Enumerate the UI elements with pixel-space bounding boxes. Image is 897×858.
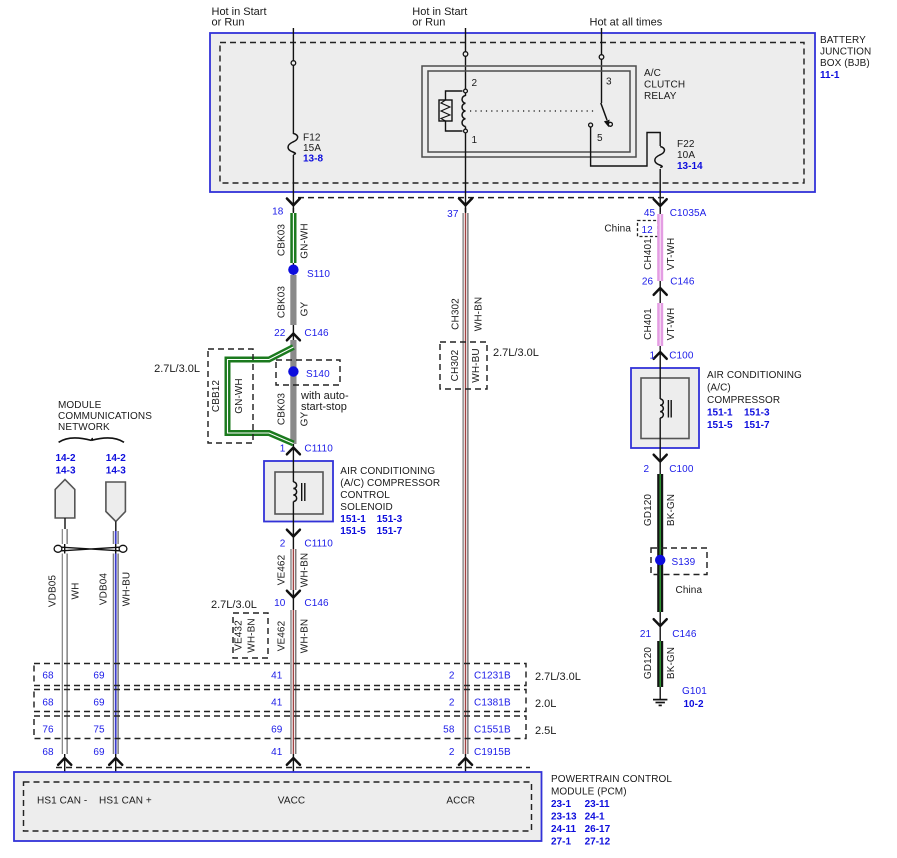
splice S139 (China) — [651, 548, 707, 596]
svg-text:AIR CONDITIONING: AIR CONDITIONING — [340, 466, 435, 477]
svg-text:69: 69 — [271, 725, 283, 736]
svg-text:2: 2 — [449, 671, 455, 682]
wire VDB05 WH — [48, 529, 82, 782]
A/C clutch relay K (box) — [422, 66, 685, 157]
svg-text:ACCR: ACCR — [446, 796, 475, 807]
svg-text:151-3: 151-3 — [744, 408, 770, 419]
node: Hot at all times — [590, 17, 663, 29]
wire VE462 WH-BN segment to C146 — [276, 536, 310, 598]
wire VE462 WH-BN segment to PCM — [276, 598, 310, 782]
svg-text:POWERTRAIN CONTROL: POWERTRAIN CONTROL — [551, 774, 672, 785]
relay switch arm pin 3 to contact — [589, 103, 613, 127]
connector exit pin 18 (C1035B) — [272, 199, 300, 218]
brace — [59, 438, 124, 442]
svg-text:10-2: 10-2 — [684, 699, 704, 710]
svg-text:22: 22 — [274, 328, 286, 339]
svg-text:MODULE (PCM): MODULE (PCM) — [551, 787, 627, 798]
relay pin 2 label — [472, 78, 478, 89]
svg-text:C146: C146 — [672, 629, 697, 640]
svg-text:151-1: 151-1 — [707, 408, 733, 419]
svg-text:75: 75 — [93, 725, 105, 736]
wire: F22 to BJB exit — [659, 169, 661, 212]
wire: feed 2 into BJB to relay coil pin 2 — [463, 28, 468, 91]
svg-text:WH-BU: WH-BU — [471, 348, 482, 382]
connector exit pin 37 — [447, 199, 472, 221]
off-page connector (down) HS1 CAN + — [106, 482, 126, 522]
relay pin 5 label — [597, 133, 603, 144]
svg-text:COMMUNICATIONS: COMMUNICATIONS — [58, 411, 152, 422]
svg-text:21: 21 — [640, 629, 652, 640]
relay coil between pins 2 and 1 — [462, 89, 467, 133]
module communications network heading — [58, 400, 152, 433]
connector C146 pin 26 — [642, 277, 695, 295]
svg-text:18: 18 — [272, 207, 284, 218]
fuse F22 10A 13-14 — [655, 139, 703, 172]
svg-text:WH: WH — [71, 583, 82, 600]
svg-text:68: 68 — [42, 747, 54, 758]
svg-text:SOLENOID: SOLENOID — [340, 502, 392, 513]
relay pin 3 label — [606, 77, 612, 88]
svg-text:2.7L/3.0L: 2.7L/3.0L — [493, 347, 539, 359]
svg-text:27-12: 27-12 — [585, 837, 611, 848]
svg-text:C146: C146 — [304, 598, 329, 609]
svg-text:23-13: 23-13 — [551, 812, 577, 823]
svg-text:F22: F22 — [677, 139, 695, 150]
engine variant label 2.7L/3.0L (wire 2) — [493, 347, 539, 359]
svg-text:15A: 15A — [303, 143, 321, 154]
svg-text:(A/C): (A/C) — [707, 383, 731, 394]
svg-text:start-stop: start-stop — [301, 401, 347, 413]
connector C146 pin 21 — [640, 619, 697, 640]
svg-text:CBK03: CBK03 — [276, 224, 287, 257]
relay pin 1 label — [472, 135, 478, 146]
svg-text:11-1: 11-1 — [820, 70, 840, 81]
svg-text:CONTROL: CONTROL — [340, 490, 390, 501]
svg-text:or Run: or Run — [212, 17, 245, 29]
svg-text:VT-WH: VT-WH — [666, 308, 677, 341]
air conditioning (A/C) compressor (box) — [631, 352, 802, 461]
svg-text:68: 68 — [42, 698, 54, 709]
svg-text:AIR CONDITIONING: AIR CONDITIONING — [707, 370, 802, 381]
svg-text:VE432: VE432 — [234, 620, 245, 651]
svg-text:1: 1 — [650, 351, 656, 362]
wire CBK03 GN-WH segment — [276, 208, 310, 275]
connector C146 pin 22 — [274, 328, 329, 340]
wire: relay pin 5 to fuse F22 — [591, 127, 661, 166]
svg-text:151-1: 151-1 — [340, 514, 366, 525]
svg-text:37: 37 — [447, 209, 459, 220]
note: with auto-start-stop — [300, 390, 349, 413]
svg-text:24-11: 24-11 — [551, 824, 576, 835]
connector dashed box: 12 (China) — [604, 221, 658, 237]
svg-text:68: 68 — [42, 671, 54, 682]
svg-text:S140: S140 — [306, 369, 330, 380]
svg-text:151-3: 151-3 — [377, 514, 403, 525]
node: Hot in Start or Run (feed 2) — [412, 6, 467, 29]
svg-text:CBB12: CBB12 — [211, 380, 222, 413]
svg-text:CBK03: CBK03 — [276, 393, 287, 426]
svg-text:or Run: or Run — [412, 17, 445, 29]
svg-text:10: 10 — [274, 598, 286, 609]
page refs 14-2 14-3 (left) — [55, 453, 75, 477]
svg-text:69: 69 — [93, 698, 105, 709]
wire: F12 to BJB exit — [292, 155, 294, 212]
svg-text:151-5: 151-5 — [340, 526, 366, 537]
svg-text:C146: C146 — [670, 277, 695, 288]
svg-text:2.7L/3.0L: 2.7L/3.0L — [535, 671, 581, 683]
svg-text:CH401: CH401 — [643, 308, 654, 340]
svg-text:151-7: 151-7 — [744, 420, 770, 431]
svg-text:2: 2 — [280, 539, 286, 550]
dashed option box VE432 WH-BN — [233, 613, 268, 658]
svg-text:23-1: 23-1 — [551, 799, 571, 810]
svg-text:69: 69 — [93, 671, 105, 682]
svg-text:HS1 CAN +: HS1 CAN + — [99, 796, 152, 807]
svg-text:14-2: 14-2 — [55, 453, 75, 464]
svg-text:2.0L: 2.0L — [535, 698, 556, 710]
node: Hot in Start or Run (feed 1) — [212, 6, 267, 29]
connector row C1381B (2.0L) — [34, 690, 556, 712]
splice S110 — [288, 265, 330, 281]
svg-text:2.7L/3.0L: 2.7L/3.0L — [211, 599, 257, 611]
branch wire CBB12 GN-WH loop (2.7L/3.0L) — [228, 347, 294, 444]
svg-text:151-5: 151-5 — [707, 420, 733, 431]
svg-text:MODULE: MODULE — [58, 400, 102, 411]
svg-text:C1381B: C1381B — [474, 698, 511, 709]
svg-text:14-3: 14-3 — [55, 466, 75, 477]
svg-text:CH302: CH302 — [451, 298, 462, 330]
svg-text:WH-BU: WH-BU — [122, 572, 133, 606]
svg-text:58: 58 — [443, 725, 455, 736]
svg-text:COMPRESSOR: COMPRESSOR — [707, 395, 780, 406]
svg-text:(A/C) COMPRESSOR: (A/C) COMPRESSOR — [340, 478, 440, 489]
svg-text:BK-GN: BK-GN — [666, 647, 677, 679]
svg-text:Hot at all times: Hot at all times — [590, 17, 663, 29]
svg-text:HS1 CAN -: HS1 CAN - — [37, 796, 87, 807]
dashed option box CH302 WH-BU (2.7L/3.0L) — [440, 342, 487, 389]
svg-text:27-1: 27-1 — [551, 837, 571, 848]
wire: feed 3 Hot at all times into BJB to relay pin 3 — [599, 28, 604, 103]
connector exit pin 45 C1035A — [644, 199, 707, 219]
svg-text:69: 69 — [93, 747, 105, 758]
BJB bottom connector dashed line — [298, 197, 666, 199]
svg-text:BATTERY: BATTERY — [820, 35, 866, 46]
twisted pair symbol — [54, 518, 127, 552]
svg-text:BOX (BJB): BOX (BJB) — [820, 58, 870, 69]
engine variant label 2.7L/3.0L (left) — [154, 363, 200, 375]
svg-text:2.7L/3.0L: 2.7L/3.0L — [154, 363, 200, 375]
svg-text:13-8: 13-8 — [303, 154, 323, 165]
svg-text:2: 2 — [644, 464, 650, 475]
svg-text:China: China — [604, 224, 631, 235]
svg-text:WH-BN: WH-BN — [247, 618, 258, 652]
svg-text:C1551B: C1551B — [474, 725, 511, 736]
svg-text:14-2: 14-2 — [106, 453, 126, 464]
svg-text:WH-BN: WH-BN — [299, 619, 310, 653]
svg-text:26: 26 — [642, 277, 654, 288]
svg-text:VT-WH: VT-WH — [666, 238, 677, 271]
wire CH302 WH-BN segment — [451, 208, 485, 782]
connector row C1231B (2.7L/3.0L) — [34, 664, 581, 686]
wire CH401 VT-WH segment to C100 — [643, 290, 677, 352]
svg-text:A/C: A/C — [644, 68, 661, 79]
svg-text:RELAY: RELAY — [644, 91, 677, 102]
svg-text:3: 3 — [606, 77, 612, 88]
svg-text:G101: G101 — [682, 686, 707, 697]
svg-text:2: 2 — [472, 78, 478, 89]
svg-text:C100: C100 — [669, 464, 694, 475]
svg-text:China: China — [676, 585, 703, 596]
svg-text:WH-BN: WH-BN — [299, 553, 310, 587]
svg-text:26-17: 26-17 — [585, 824, 611, 835]
ground G101 10-2 — [653, 686, 707, 710]
svg-text:VDB05: VDB05 — [48, 575, 59, 608]
svg-text:CH401: CH401 — [643, 238, 654, 270]
splice S140 with option dashed box — [276, 360, 340, 385]
page refs 14-2 14-3 (right) — [106, 453, 126, 477]
svg-text:2: 2 — [449, 698, 455, 709]
svg-text:12: 12 — [642, 225, 654, 236]
wire GD120 BK-GN segment to ground — [643, 628, 677, 699]
svg-text:S139: S139 — [672, 557, 696, 568]
svg-text:GD120: GD120 — [643, 494, 654, 527]
svg-text:41: 41 — [271, 671, 283, 682]
fuse F12 15A 13-8 — [288, 133, 323, 165]
wire: feed 1 into BJB to fuse F12 — [291, 28, 296, 134]
wire CH401 VT-WH segment to C146 — [643, 208, 677, 290]
connector C100 pin 1 — [650, 351, 694, 362]
svg-text:GY: GY — [299, 301, 310, 316]
off-page connector (up) HS1 CAN - — [55, 480, 75, 519]
svg-text:10A: 10A — [677, 150, 695, 161]
wire into PCM (HS1 CAN +) — [109, 758, 122, 765]
svg-text:C1231B: C1231B — [474, 671, 511, 682]
svg-text:CBK03: CBK03 — [276, 286, 287, 319]
svg-text:CLUTCH: CLUTCH — [644, 80, 685, 91]
svg-text:C1915B: C1915B — [474, 747, 511, 758]
svg-text:C100: C100 — [669, 351, 694, 362]
svg-text:S110: S110 — [307, 269, 330, 280]
svg-text:VE462: VE462 — [276, 620, 287, 651]
wire VDB04 WH-BU — [99, 531, 133, 782]
wire into PCM (ACCR) — [459, 758, 472, 765]
svg-text:GN-WH: GN-WH — [234, 378, 245, 414]
svg-text:151-7: 151-7 — [377, 526, 403, 537]
svg-text:C1110: C1110 — [304, 444, 333, 455]
svg-text:F12: F12 — [303, 133, 321, 144]
relay actuation dotted link — [470, 110, 594, 112]
svg-text:WH-BN: WH-BN — [474, 297, 485, 331]
PCM connector dashed line — [56, 767, 530, 769]
wire: relay pin 1 to BJB exit — [465, 133, 467, 212]
PCM label and page refs — [551, 774, 672, 848]
svg-text:24-1: 24-1 — [585, 812, 605, 823]
svg-text:JUNCTION: JUNCTION — [820, 47, 871, 58]
svg-text:41: 41 — [271, 698, 283, 709]
wire CBK03 GY segment to C1110 with S140 — [276, 340, 310, 455]
svg-text:23-11: 23-11 — [585, 799, 610, 810]
svg-text:14-3: 14-3 — [106, 466, 126, 477]
dashed option box CBB12 GN-WH — [208, 349, 253, 443]
connector row C1915B — [42, 747, 511, 758]
svg-text:VACC: VACC — [278, 796, 305, 807]
svg-text:41: 41 — [271, 747, 283, 758]
svg-text:2.5L: 2.5L — [535, 725, 556, 737]
A/C compressor control solenoid (box) — [264, 455, 440, 537]
powertrain control module PCM (box) — [14, 772, 542, 841]
svg-text:C1110: C1110 — [304, 539, 333, 550]
svg-text:CH302: CH302 — [450, 349, 461, 381]
svg-text:GN-WH: GN-WH — [299, 223, 310, 259]
engine variant label 2.7L/3.0L (solenoid branch) — [211, 599, 257, 611]
svg-text:1: 1 — [472, 135, 478, 146]
connector row C1551B (2.5L) — [34, 716, 556, 739]
svg-text:GD120: GD120 — [643, 647, 654, 680]
battery junction box (BJB) — [210, 33, 871, 192]
wire CBK03 GY segment to C146 — [276, 275, 310, 340]
svg-text:BK-GN: BK-GN — [666, 494, 677, 526]
svg-text:NETWORK: NETWORK — [58, 422, 110, 433]
svg-text:GY: GY — [299, 411, 310, 426]
wire GD120 BK-GN segment with S139 — [643, 461, 677, 628]
connector C146 pin 10 — [274, 591, 329, 609]
svg-text:13-14: 13-14 — [677, 161, 703, 172]
svg-text:76: 76 — [42, 725, 54, 736]
relay suppression resistor (parallel with coil) — [439, 91, 463, 131]
connector C100 pin 2 — [644, 455, 694, 475]
svg-text:45: 45 — [644, 208, 656, 219]
svg-text:VDB04: VDB04 — [99, 573, 110, 606]
svg-text:5: 5 — [597, 133, 603, 144]
wire into PCM (HS1 CAN -) — [58, 758, 71, 765]
wire into PCM (VACC) — [287, 758, 300, 765]
connector C1110 pin 1 — [280, 444, 333, 455]
svg-text:1: 1 — [280, 444, 286, 455]
svg-text:2: 2 — [449, 747, 455, 758]
svg-text:VE462: VE462 — [276, 554, 287, 585]
svg-text:C146: C146 — [304, 328, 329, 339]
connector C1110 pin 2 — [280, 530, 333, 550]
svg-text:C1035A: C1035A — [670, 208, 707, 219]
